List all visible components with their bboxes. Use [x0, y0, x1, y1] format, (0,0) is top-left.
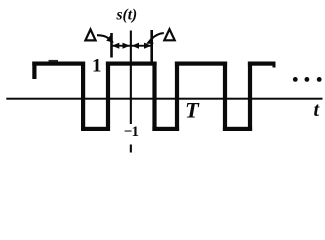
- wave top segment 5: [248, 62, 276, 66]
- delta label right: [164, 29, 174, 40]
- wave left partial rising edge: [32, 62, 36, 80]
- svg-text:s(t): s(t): [116, 7, 138, 24]
- wave bottom segment 1: [81, 127, 110, 131]
- wave top segment 2 (central pulse): [106, 62, 157, 66]
- leader curve from right delta: [152, 33, 164, 39]
- svg-text:1: 1: [92, 56, 102, 77]
- arrowhead pointing left at axis (right side): [132, 43, 139, 49]
- wave bottom segment 2: [152, 127, 179, 131]
- wave bottom segment 4: [223, 127, 252, 131]
- wave falling edge 2: [152, 62, 156, 132]
- t-axis: [6, 98, 322, 100]
- wave rising edge 5: [248, 62, 252, 132]
- svg-text:−1: −1: [124, 124, 139, 140]
- wave end small drop: [273, 62, 276, 68]
- wave falling edge 1: [81, 62, 85, 132]
- wave top segment 1: [32, 62, 85, 66]
- arrowhead pointing right at axis (left side): [123, 43, 130, 49]
- wave rising edge 3: [175, 62, 179, 132]
- scan bump above top segment 1: [49, 60, 59, 62]
- dimension line left (tick to axis): [112, 45, 131, 47]
- leader arrowhead left: [106, 35, 114, 42]
- svg-text:T: T: [185, 97, 200, 122]
- leader curve from left delta: [97, 35, 109, 38]
- leader arrowhead right: [146, 38, 154, 44]
- s(t) axis dash below -1: [130, 145, 132, 153]
- ellipsis dots: [293, 77, 298, 82]
- delta label left: [85, 29, 95, 40]
- s(t) axis solid: [130, 31, 132, 125]
- left tick mark: [110, 33, 113, 58]
- right tick mark: [150, 30, 153, 62]
- wave rising edge 2: [106, 62, 110, 132]
- dimension line right (axis to tick): [132, 45, 152, 47]
- arrowhead pointing left at left tick: [112, 43, 119, 49]
- arrowhead pointing right at right tick: [144, 43, 151, 49]
- wave falling edge 4: [223, 62, 227, 132]
- wave top segment 3: [175, 62, 227, 66]
